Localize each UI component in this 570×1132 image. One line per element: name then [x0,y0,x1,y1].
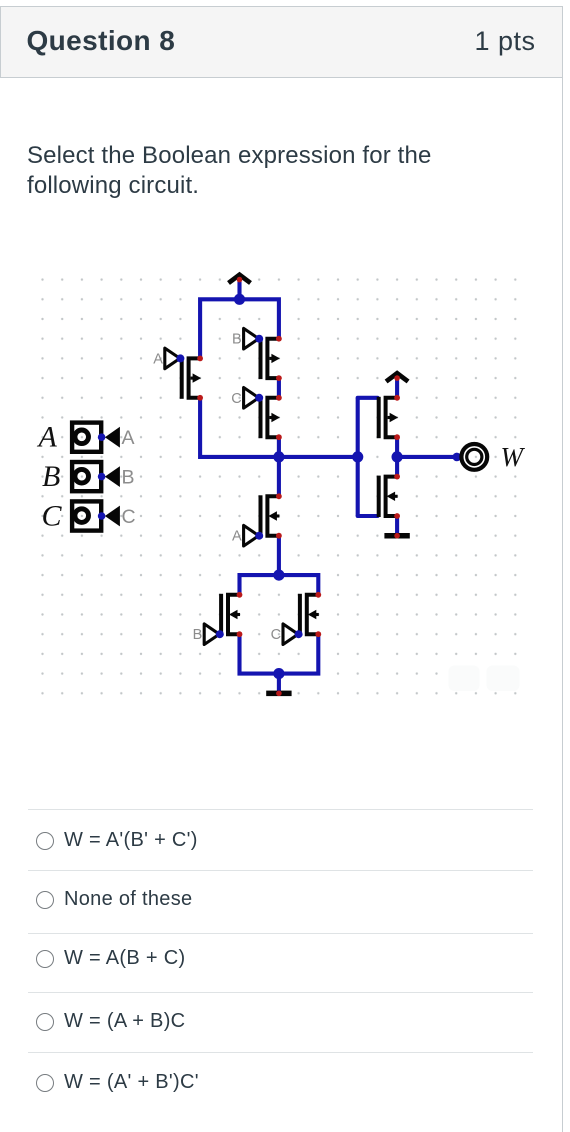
dotted grid background [33,270,525,703]
svg-text:C: C [42,500,63,533]
svg-text:C: C [231,391,241,407]
svg-text:C: C [122,506,136,528]
PMOS Q1 gate A [182,357,201,398]
svg-text:A: A [37,421,58,454]
gate triangle+node B of PMOS Q2 gate B [244,328,259,349]
wire parallel pair top rail [240,575,319,595]
gate triangle+node C of NMOS Q6 gate C [283,624,298,645]
wire output wire to W [397,455,456,459]
svg-text:B: B [42,460,60,493]
node inverter output junction [392,451,403,462]
wire VDD stub [237,280,241,300]
node first-stage output junction [273,451,284,462]
wire inverter VDD stub [395,378,399,398]
wire A PMOS drain + mid rail [200,398,358,457]
gate triangle+node A of PMOS Q1 gate A [165,348,180,369]
svg-text:A: A [122,427,135,449]
NMOS Q6 gate C [300,594,319,635]
gate triangle+node A of NMOS Q4 gate A [244,525,259,546]
VDD supply 1 (VDD up-arrow) [229,275,251,283]
svg-text:W: W [501,442,526,472]
NMOS Q5 gate B [221,594,240,635]
PMOS Q3 gate C [261,397,280,438]
wire A NMOS source down [277,536,281,575]
output pin W (double circle) [461,444,487,470]
svg-text:A: A [153,351,163,367]
PMOS Q2 gate B [261,338,280,379]
wire mid node to A NMOS drain [277,457,281,496]
wire B-C PMOS series link [277,378,281,398]
wire inverter input riser [356,398,360,516]
svg-text:B: B [193,627,203,643]
node pair bottom junction [273,668,284,679]
node pair top junction [273,570,284,581]
wire ground stub [277,674,281,694]
right border of question box [562,6,563,1132]
svg-text:B: B [232,332,242,348]
node inverter input junction [352,451,363,462]
wire pull-up top rail + branches [200,299,279,358]
inverter PMOS Q7 [379,397,398,438]
wire inverter NMOS gate stub [358,514,378,518]
input pin A [72,423,101,452]
NMOS Q4 gate A [261,495,280,536]
ground 1 [266,691,291,697]
wire parallel pair bottom rail [240,634,319,673]
VDD supply 2 (VDD up-arrow) [386,373,408,381]
inverter NMOS Q8 [379,476,398,517]
circuit schematic [0,240,570,720]
transistor pin dots [197,356,203,362]
wire inverter PMOS gate stub [358,396,378,400]
question prompt text [27,141,431,201]
svg-text:B: B [122,467,135,489]
wire C PMOS drain to mid node [277,437,281,457]
ground 2 [384,533,409,539]
wire inverter output column [395,437,399,476]
question header bar [0,6,563,78]
gate triangle+node C of PMOS Q3 gate C [244,388,259,409]
faint watermark blobs [449,666,480,692]
wire end cap at W pin [453,453,462,462]
svg-text:A: A [232,529,242,545]
node VDD junction [234,294,245,305]
wire inverter NMOS source to ground [395,516,399,536]
answer options [28,809,533,810]
input pin C [72,501,101,530]
gate triangle+node B of NMOS Q5 gate B [204,624,219,645]
svg-text:C: C [271,627,281,643]
input pin B [72,462,101,491]
